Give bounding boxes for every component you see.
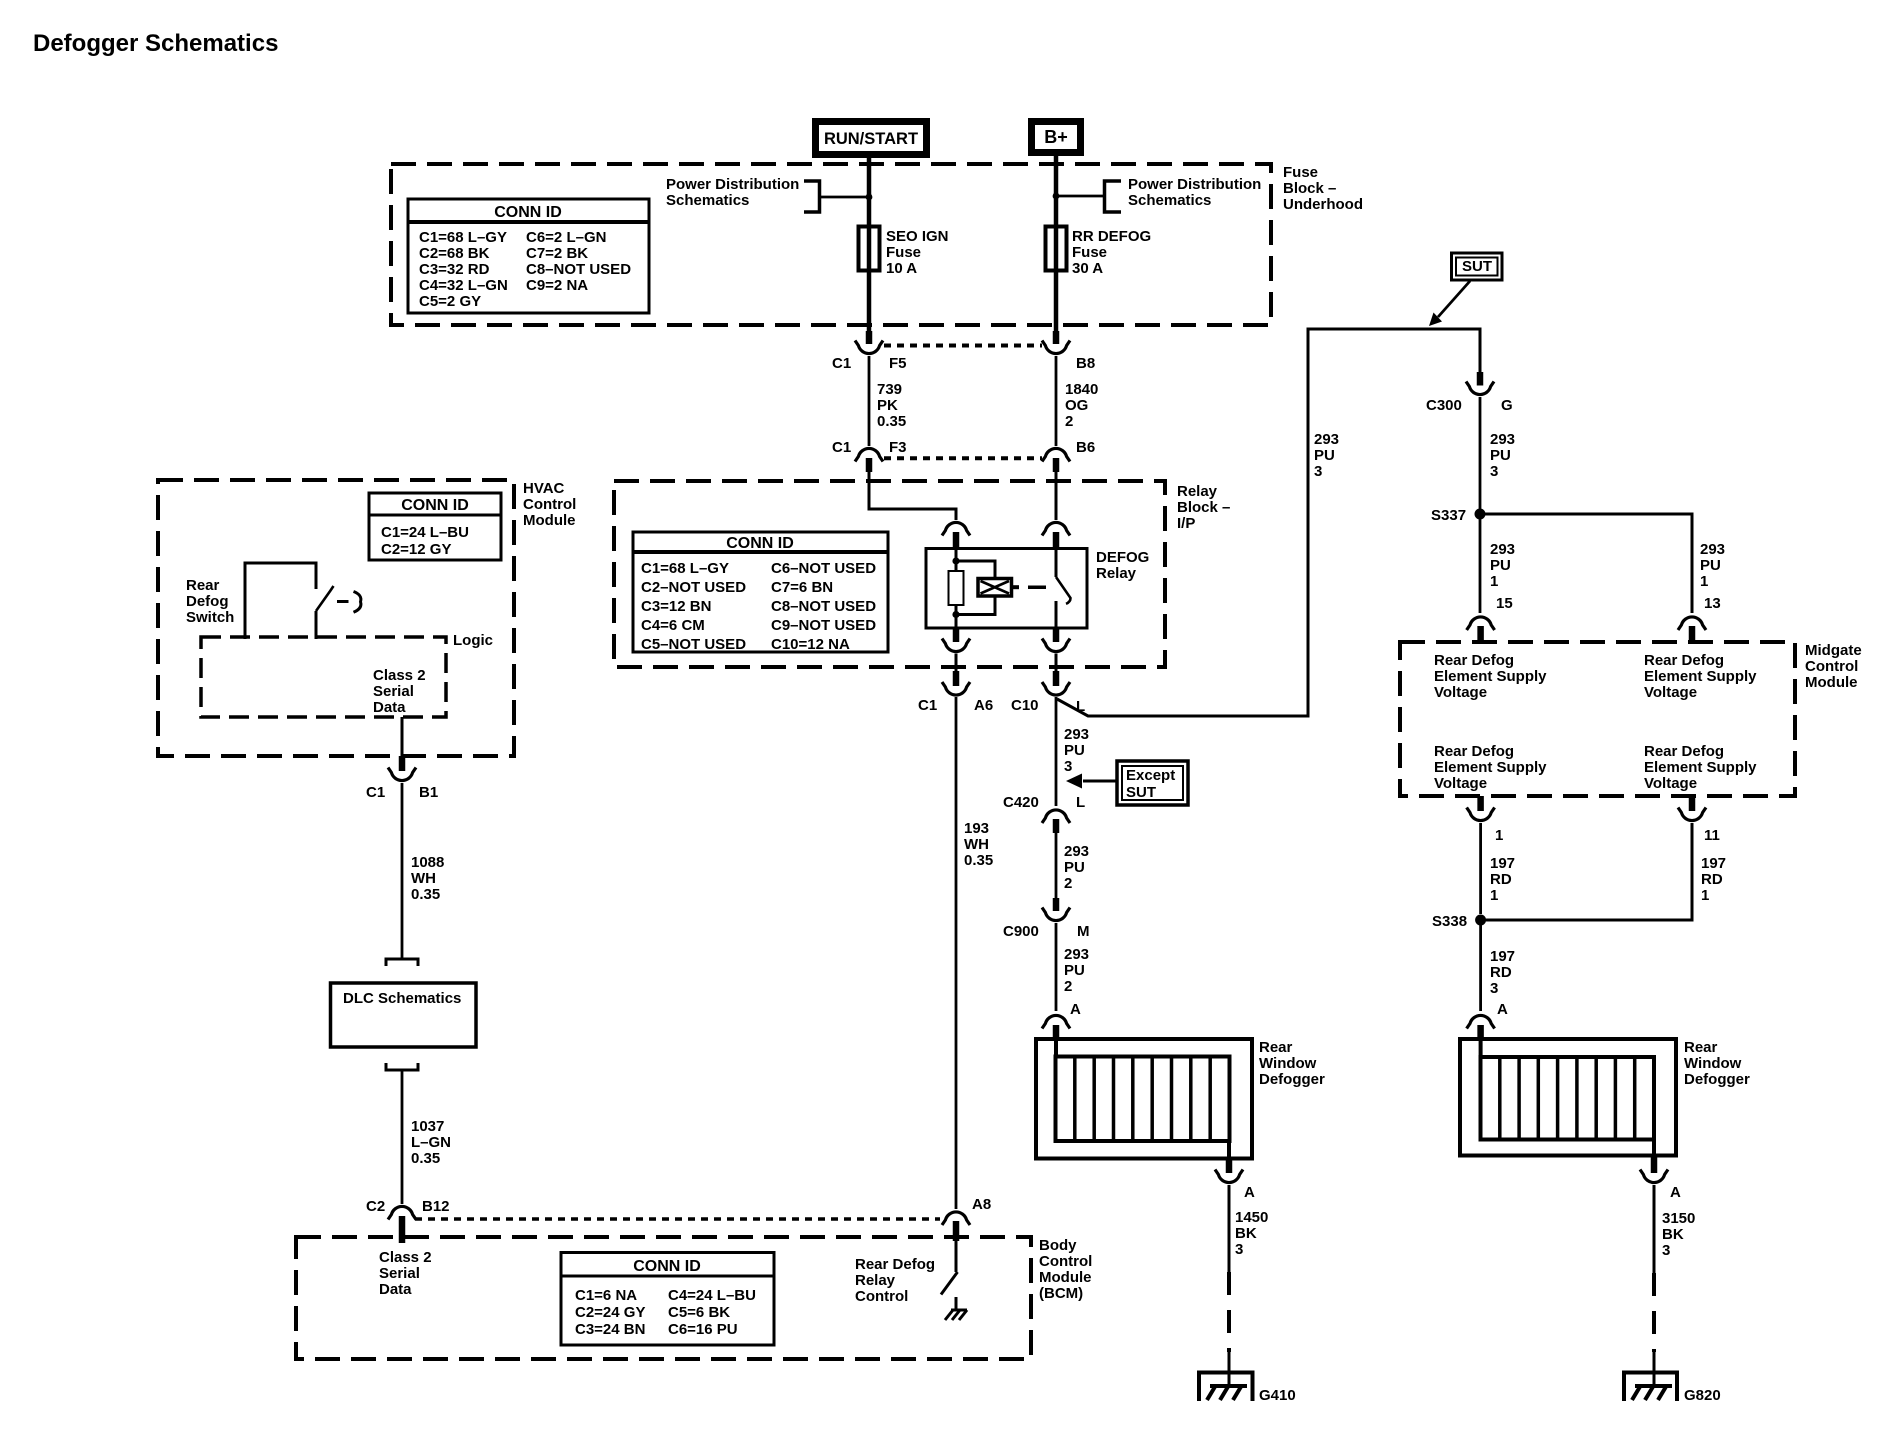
- svg-text:SUT: SUT: [1126, 784, 1156, 801]
- label Body Control Module (BCM): [1039, 1237, 1092, 1302]
- svg-text:Rear Defog: Rear Defog: [1644, 652, 1724, 669]
- connector pin 13: [1678, 595, 1721, 642]
- svg-text:Schematics: Schematics: [1128, 192, 1211, 209]
- label Rear Defog Element Supply Voltage (top right): [1644, 652, 1757, 701]
- svg-text:C900: C900: [1003, 923, 1039, 940]
- svg-text:RR DEFOG: RR DEFOG: [1072, 228, 1151, 245]
- svg-text:CONN ID: CONN ID: [401, 497, 469, 514]
- svg-text:Power Distribution: Power Distribution: [666, 176, 799, 193]
- wire 293 PU 2 (C900-A): [1056, 923, 1089, 1011]
- svg-text:Rear: Rear: [1259, 1039, 1293, 1056]
- svg-text:Rear: Rear: [1684, 1039, 1718, 1056]
- label Midgate Control Module: [1805, 642, 1862, 691]
- connector C2/B12: [366, 1198, 450, 1243]
- svg-text:B6: B6: [1076, 439, 1095, 456]
- label Class 2 Serial Data (HVAC): [373, 667, 426, 716]
- svg-text:A: A: [1670, 1184, 1681, 1201]
- label Fuse Block - Underhood: [1283, 164, 1363, 213]
- svg-text:C5–NOT USED: C5–NOT USED: [641, 636, 746, 653]
- node junction on RUN/START feed: [866, 194, 873, 201]
- svg-text:Power Distribution: Power Distribution: [1128, 176, 1261, 193]
- svg-text:B1: B1: [419, 784, 438, 801]
- wire 293 PU 3 below C300: [1480, 397, 1515, 509]
- svg-text:DLC Schematics: DLC Schematics: [343, 990, 461, 1007]
- wire 197 RD 3: [1481, 920, 1515, 1011]
- svg-text:0.35: 0.35: [877, 413, 906, 430]
- svg-text:A: A: [1497, 1001, 1508, 1018]
- svg-text:Control: Control: [855, 1288, 908, 1305]
- svg-text:Element Supply: Element Supply: [1644, 668, 1757, 685]
- svg-text:C4=6 CM: C4=6 CM: [641, 617, 705, 634]
- splice S338: [1432, 913, 1486, 930]
- svg-text:C5=6 BK: C5=6 BK: [668, 1304, 730, 1321]
- svg-text:C3=32 RD: C3=32 RD: [419, 261, 490, 278]
- svg-text:C4=24 L–BU: C4=24 L–BU: [668, 1287, 756, 1304]
- svg-text:1037: 1037: [411, 1118, 444, 1135]
- label Class 2 Serial Data (BCM): [379, 1249, 432, 1298]
- svg-text:C8–NOT USED: C8–NOT USED: [526, 261, 631, 278]
- svg-text:293: 293: [1064, 843, 1089, 860]
- wire 1037 L-GN 0.35: [402, 1070, 451, 1204]
- logic dashed box: [201, 632, 493, 717]
- svg-text:RUN/START: RUN/START: [824, 130, 918, 148]
- rear window defogger (right): [1460, 1039, 1676, 1156]
- wire 197 RD 1 (right): [1486, 823, 1726, 920]
- svg-text:RD: RD: [1701, 871, 1723, 888]
- svg-text:11: 11: [1704, 827, 1720, 844]
- svg-text:C1: C1: [832, 439, 851, 456]
- svg-text:G820: G820: [1684, 1387, 1721, 1404]
- svg-text:C1: C1: [832, 355, 851, 372]
- svg-text:Defogger: Defogger: [1684, 1071, 1750, 1088]
- svg-text:C2: C2: [366, 1198, 385, 1215]
- fuse SEO IGN 10A: [859, 227, 949, 278]
- svg-text:13: 13: [1704, 595, 1721, 612]
- svg-text:BK: BK: [1235, 1225, 1257, 1242]
- wire 293 PU 1 (right label): [1700, 541, 1725, 590]
- svg-text:Rear: Rear: [186, 577, 220, 594]
- svg-text:HVAC: HVAC: [523, 480, 565, 497]
- svg-text:CONN ID: CONN ID: [726, 535, 794, 552]
- svg-text:SEO IGN: SEO IGN: [886, 228, 949, 245]
- relay socket cup switch side: [1042, 522, 1070, 549]
- svg-text:C10=12 NA: C10=12 NA: [771, 636, 850, 653]
- label Rear Defog Element Supply Voltage (bottom left): [1434, 743, 1547, 792]
- svg-text:3: 3: [1662, 1242, 1670, 1259]
- svg-text:PU: PU: [1064, 742, 1085, 759]
- svg-text:C6–NOT USED: C6–NOT USED: [771, 560, 876, 577]
- svg-text:S337: S337: [1431, 507, 1466, 524]
- svg-text:C2=12 GY: C2=12 GY: [381, 541, 451, 558]
- svg-text:CONN ID: CONN ID: [494, 204, 562, 221]
- svg-text:Rear Defog: Rear Defog: [1434, 743, 1514, 760]
- svg-text:(BCM): (BCM): [1039, 1285, 1083, 1302]
- connector C10/L: [1011, 671, 1085, 715]
- svg-text:C5=2 GY: C5=2 GY: [419, 293, 481, 310]
- svg-text:F5: F5: [889, 355, 907, 372]
- svg-text:I/P: I/P: [1177, 515, 1195, 532]
- svg-text:Fuse: Fuse: [1072, 244, 1107, 261]
- svg-text:Block –: Block –: [1177, 499, 1230, 516]
- label Rear Defog Element Supply Voltage (top left): [1434, 652, 1547, 701]
- BCM dashed box: [296, 1237, 1031, 1359]
- svg-text:Defog: Defog: [186, 593, 229, 610]
- svg-text:30 A: 30 A: [1072, 260, 1103, 277]
- dotted tie C2/B12 to A8: [415, 1217, 940, 1221]
- svg-text:197: 197: [1701, 855, 1726, 872]
- bracket below DLC box: [386, 1063, 418, 1070]
- wire logic to C1/B1: [401, 717, 404, 757]
- svg-text:3: 3: [1490, 980, 1498, 997]
- svg-text:Rear Defog: Rear Defog: [1434, 652, 1514, 669]
- svg-text:Module: Module: [523, 512, 576, 529]
- svg-text:B8: B8: [1076, 355, 1095, 372]
- svg-text:739: 739: [877, 381, 902, 398]
- dotted connector tie F3-B6: [884, 456, 1042, 460]
- CONN ID table (relay block): [633, 532, 888, 653]
- svg-text:Voltage: Voltage: [1644, 684, 1697, 701]
- svg-text:RD: RD: [1490, 964, 1512, 981]
- svg-text:PK: PK: [877, 397, 898, 414]
- svg-text:293: 293: [1490, 541, 1515, 558]
- svg-text:Data: Data: [379, 1281, 412, 1298]
- svg-text:A6: A6: [974, 697, 993, 714]
- svg-text:Block –: Block –: [1283, 180, 1336, 197]
- dashed ground lead G820: [1652, 1273, 1656, 1386]
- svg-text:L–GN: L–GN: [411, 1134, 451, 1151]
- svg-text:0.35: 0.35: [411, 886, 440, 903]
- connector A8: [942, 1196, 991, 1241]
- svg-text:Window: Window: [1259, 1055, 1317, 1072]
- svg-text:3: 3: [1490, 463, 1498, 480]
- svg-text:C2–NOT USED: C2–NOT USED: [641, 579, 746, 596]
- CONN ID table (fuse block): [408, 199, 649, 313]
- svg-text:A: A: [1244, 1184, 1255, 1201]
- svg-text:3: 3: [1314, 463, 1322, 480]
- svg-text:Body: Body: [1039, 1237, 1077, 1254]
- svg-text:Module: Module: [1805, 674, 1858, 691]
- svg-text:Class 2: Class 2: [373, 667, 426, 684]
- relay DEFOG outline: [926, 549, 1149, 629]
- svg-text:1840: 1840: [1065, 381, 1098, 398]
- svg-text:WH: WH: [411, 870, 436, 887]
- rear window defogger (left): [1036, 1039, 1252, 1159]
- label HVAC Control Module: [523, 480, 576, 529]
- label Rear Defog Relay Control: [855, 1256, 935, 1305]
- svg-text:C1: C1: [918, 697, 937, 714]
- svg-text:Element Supply: Element Supply: [1434, 668, 1547, 685]
- svg-text:C4=32 L–GN: C4=32 L–GN: [419, 277, 508, 294]
- relay switch contact: [1056, 549, 1071, 629]
- callout Except SUT: [1066, 761, 1188, 805]
- wire 293 PU 3 (riser label): [1314, 431, 1339, 480]
- rear defog switch symbol: [245, 563, 361, 639]
- svg-text:1: 1: [1700, 573, 1708, 590]
- svg-text:2: 2: [1064, 978, 1072, 995]
- svg-text:1: 1: [1495, 827, 1503, 844]
- svg-text:PU: PU: [1064, 962, 1085, 979]
- svg-text:Fuse: Fuse: [886, 244, 921, 261]
- wire 197 RD 1 (left): [1481, 823, 1515, 914]
- connector A (left defogger in): [1042, 1001, 1081, 1040]
- connector A (right defogger out): [1640, 1140, 1681, 1202]
- connector C900/M: [1003, 898, 1090, 940]
- svg-text:RD: RD: [1490, 871, 1512, 888]
- connector pin 1: [1467, 796, 1504, 844]
- defogger grid bars (right): [1481, 1040, 1635, 1140]
- svg-text:A: A: [1070, 1001, 1081, 1018]
- svg-text:293: 293: [1064, 946, 1089, 963]
- wire S337 to pin 13 branch: [1480, 514, 1692, 613]
- svg-text:C3=12 BN: C3=12 BN: [641, 598, 711, 615]
- connector C1/F3: [832, 439, 907, 472]
- relay block I/P dashed box: [614, 481, 1165, 667]
- label Rear Defog Element Supply Voltage (bottom right): [1644, 743, 1757, 792]
- node junction on B+ feed: [1053, 193, 1060, 200]
- svg-text:Data: Data: [373, 699, 406, 716]
- svg-text:PU: PU: [1490, 557, 1511, 574]
- svg-text:C10: C10: [1011, 697, 1039, 714]
- relay solenoid coil (box with X): [978, 579, 1019, 597]
- svg-text:0.35: 0.35: [964, 852, 993, 869]
- svg-text:Switch: Switch: [186, 609, 234, 626]
- svg-text:C1=68 L–GY: C1=68 L–GY: [641, 560, 729, 577]
- callout Power Distribution Schematics (left): [666, 176, 866, 212]
- wire L to SUT riser: [1057, 329, 1480, 716]
- wire 1450 BK 3: [1229, 1185, 1268, 1272]
- dotted connector tie F5-B8: [884, 344, 1042, 348]
- svg-text:C2=24 GY: C2=24 GY: [575, 1304, 645, 1321]
- svg-text:Voltage: Voltage: [1434, 775, 1487, 792]
- ground G410: [1199, 1373, 1296, 1405]
- label SUT box: [1452, 253, 1503, 280]
- connector C300/G: [1426, 372, 1513, 414]
- svg-text:Relay: Relay: [855, 1272, 896, 1289]
- svg-text:C1=68 L–GY: C1=68 L–GY: [419, 229, 507, 246]
- label Rear Window Defogger (right): [1684, 1039, 1750, 1088]
- svg-text:Element Supply: Element Supply: [1434, 759, 1547, 776]
- svg-text:Control: Control: [523, 496, 576, 513]
- wire B+ feed: [1054, 152, 1059, 332]
- BCM internal ground: [945, 1297, 967, 1320]
- svg-text:BK: BK: [1662, 1226, 1684, 1243]
- wire RUN/START feed: [867, 154, 872, 332]
- svg-text:Defogger Schematics: Defogger Schematics: [33, 30, 278, 57]
- mechanical link dash: [1028, 585, 1046, 589]
- svg-text:F3: F3: [889, 439, 907, 456]
- connector C1/F5: [832, 331, 907, 372]
- svg-text:C300: C300: [1426, 397, 1462, 414]
- svg-text:293: 293: [1700, 541, 1725, 558]
- callout Power Distribution Schematics (right): [1059, 176, 1261, 212]
- svg-text:197: 197: [1490, 948, 1515, 965]
- svg-text:B+: B+: [1044, 127, 1068, 147]
- svg-text:3: 3: [1235, 1241, 1243, 1258]
- relay socket cup coil side: [942, 522, 970, 549]
- DLC Schematics box: [331, 983, 477, 1047]
- connector B8: [1042, 331, 1095, 372]
- svg-text:Class 2: Class 2: [379, 1249, 432, 1266]
- midgate control module dashed box: [1400, 642, 1795, 796]
- svg-text:PU: PU: [1700, 557, 1721, 574]
- wire 293 PU 3 to C420: [1056, 697, 1089, 806]
- svg-text:OG: OG: [1065, 397, 1088, 414]
- svg-text:Voltage: Voltage: [1434, 684, 1487, 701]
- svg-text:3150: 3150: [1662, 1210, 1695, 1227]
- svg-text:Element Supply: Element Supply: [1644, 759, 1757, 776]
- defogger grid bars (left): [1056, 1040, 1210, 1141]
- svg-text:A8: A8: [972, 1196, 991, 1213]
- svg-text:WH: WH: [964, 836, 989, 853]
- dashed ground lead G410: [1227, 1272, 1231, 1386]
- splice S337: [1431, 507, 1486, 524]
- svg-text:Voltage: Voltage: [1644, 775, 1697, 792]
- svg-text:C6=2 L–GN: C6=2 L–GN: [526, 229, 606, 246]
- connector C1/B1: [366, 756, 438, 801]
- svg-text:193: 193: [964, 820, 989, 837]
- svg-text:PU: PU: [1314, 447, 1335, 464]
- relay coil branch wire: [956, 561, 995, 615]
- ground G820: [1624, 1373, 1721, 1405]
- svg-text:Except: Except: [1126, 767, 1175, 784]
- svg-text:C9=2 NA: C9=2 NA: [526, 277, 588, 294]
- svg-text:10 A: 10 A: [886, 260, 917, 277]
- svg-text:Relay: Relay: [1177, 483, 1218, 500]
- svg-text:293: 293: [1064, 726, 1089, 743]
- label Rear Defog Switch: [186, 577, 234, 626]
- svg-text:C8–NOT USED: C8–NOT USED: [771, 598, 876, 615]
- connector C1/A6: [918, 671, 993, 714]
- svg-text:Module: Module: [1039, 1269, 1092, 1286]
- arrow from SUT box: [1429, 281, 1470, 326]
- svg-text:197: 197: [1490, 855, 1515, 872]
- title Defogger Schematics: [33, 30, 278, 57]
- svg-text:PU: PU: [1064, 859, 1085, 876]
- connector C420/L: [1003, 794, 1085, 833]
- svg-text:Control: Control: [1039, 1253, 1092, 1270]
- svg-text:Rear Defog: Rear Defog: [1644, 743, 1724, 760]
- svg-text:3: 3: [1064, 758, 1072, 775]
- relay pin cup bottom switch side: [1042, 627, 1070, 672]
- CONN ID table (HVAC): [369, 493, 501, 560]
- relay coil left pin: [955, 549, 958, 629]
- svg-text:DEFOG: DEFOG: [1096, 549, 1149, 566]
- svg-text:2: 2: [1064, 875, 1072, 892]
- svg-text:C420: C420: [1003, 794, 1039, 811]
- svg-text:Window: Window: [1684, 1055, 1742, 1072]
- label Relay Block - I/P: [1177, 483, 1230, 532]
- svg-text:C3=24 BN: C3=24 BN: [575, 1321, 645, 1338]
- node relay coil bottom: [952, 611, 959, 618]
- svg-text:C6=16 PU: C6=16 PU: [668, 1321, 738, 1338]
- svg-text:0.35: 0.35: [411, 1150, 440, 1167]
- svg-text:15: 15: [1496, 595, 1513, 612]
- wire A6 to BCM A8: [956, 697, 993, 1209]
- svg-text:1088: 1088: [411, 854, 444, 871]
- svg-text:G: G: [1501, 397, 1513, 414]
- wire 293 PU 2 (C420-C900): [1056, 833, 1089, 898]
- svg-text:PU: PU: [1490, 447, 1511, 464]
- svg-text:S338: S338: [1432, 913, 1467, 930]
- svg-text:C2=68 BK: C2=68 BK: [419, 245, 490, 262]
- svg-text:C1: C1: [366, 784, 385, 801]
- connector B6: [1042, 439, 1095, 472]
- svg-text:293: 293: [1314, 431, 1339, 448]
- connector pin 15: [1467, 595, 1513, 642]
- svg-text:Schematics: Schematics: [666, 192, 749, 209]
- svg-text:Serial: Serial: [379, 1265, 420, 1282]
- wire B6 to relay switch pin: [1055, 470, 1058, 520]
- wire 1840 OG 2: [1056, 356, 1098, 446]
- relay pin cup bottom coil side: [942, 627, 970, 672]
- wire 1088 WH 0.35: [402, 783, 444, 959]
- svg-text:2: 2: [1065, 413, 1073, 430]
- BCM relay driver switch: [941, 1241, 958, 1295]
- label Rear Window Defogger (left): [1259, 1039, 1325, 1088]
- terminal RUN/START: [816, 122, 927, 155]
- svg-text:Midgate: Midgate: [1805, 642, 1862, 659]
- svg-text:Rear Defog: Rear Defog: [855, 1256, 935, 1273]
- HVAC control module dashed box: [158, 480, 514, 756]
- svg-text:CONN ID: CONN ID: [633, 1258, 701, 1275]
- svg-text:1450: 1450: [1235, 1209, 1268, 1226]
- svg-text:SUT: SUT: [1462, 258, 1492, 275]
- svg-text:C1=24 L–BU: C1=24 L–BU: [381, 524, 469, 541]
- svg-text:Underhood: Underhood: [1283, 196, 1363, 213]
- svg-text:1: 1: [1490, 573, 1498, 590]
- svg-text:1: 1: [1490, 887, 1498, 904]
- svg-text:C7=2 BK: C7=2 BK: [526, 245, 588, 262]
- svg-text:Fuse: Fuse: [1283, 164, 1318, 181]
- connector pin 11: [1678, 796, 1720, 844]
- wire 739 PK 0.35: [869, 356, 906, 446]
- svg-text:C7=6 BN: C7=6 BN: [771, 579, 833, 596]
- svg-text:C9–NOT USED: C9–NOT USED: [771, 617, 876, 634]
- CONN ID table (BCM): [561, 1253, 774, 1346]
- terminal B+: [1032, 122, 1081, 153]
- wire 293 PU 1 (left): [1480, 514, 1515, 613]
- svg-text:Relay: Relay: [1096, 565, 1137, 582]
- bracket above DLC box: [386, 959, 418, 966]
- svg-text:1: 1: [1701, 887, 1709, 904]
- svg-text:Logic: Logic: [453, 632, 493, 649]
- wire F3 to relay coil pin: [869, 470, 956, 520]
- wire 3150 BK 3: [1654, 1185, 1695, 1273]
- svg-text:Serial: Serial: [373, 683, 414, 700]
- svg-text:Defogger: Defogger: [1259, 1071, 1325, 1088]
- svg-text:C1=6 NA: C1=6 NA: [575, 1287, 637, 1304]
- node relay coil top: [952, 557, 959, 564]
- svg-text:B12: B12: [422, 1198, 450, 1215]
- resistor in relay: [949, 571, 964, 605]
- svg-text:M: M: [1077, 923, 1090, 940]
- svg-text:L: L: [1076, 794, 1085, 811]
- svg-text:G410: G410: [1259, 1387, 1296, 1404]
- svg-text:Control: Control: [1805, 658, 1858, 675]
- connector A (left defogger out): [1215, 1141, 1255, 1201]
- svg-text:293: 293: [1490, 431, 1515, 448]
- connector A (right defogger in): [1467, 1001, 1508, 1040]
- fuse block underhood dashed box: [391, 164, 1271, 325]
- fuse RR DEFOG 30A: [1046, 227, 1152, 278]
